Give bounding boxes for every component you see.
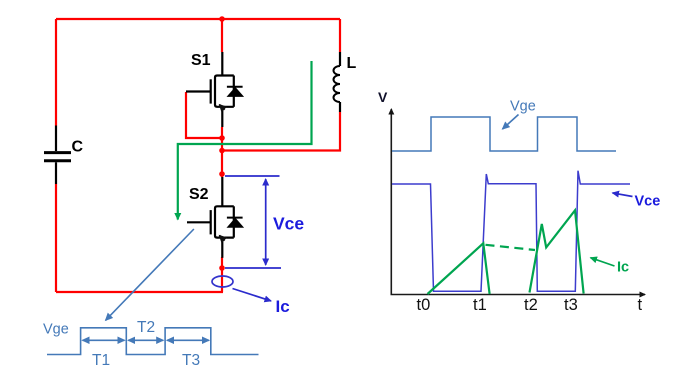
inductor L1 coil bbox=[333, 66, 340, 102]
wire red S1 gate loop bbox=[186, 92, 222, 138]
node Ic pointer arrow bbox=[233, 289, 272, 301]
node Vge label arrow bbox=[503, 115, 519, 130]
wire red S1 emitter to S2 collector bbox=[221, 127, 223, 177]
node Ic label arrow bbox=[591, 258, 615, 266]
node junction dot inductor branch bbox=[219, 148, 225, 154]
node T3 interval arrow bbox=[167, 339, 209, 341]
svg-text:Vce: Vce bbox=[273, 214, 304, 234]
node T2 interval arrow bbox=[128, 339, 163, 341]
wire V axis (vertical) bbox=[390, 109, 392, 295]
wire gate pulse waveform bbox=[47, 328, 259, 355]
svg-text:t2: t2 bbox=[524, 296, 538, 314]
node junction dot top bbox=[219, 16, 225, 22]
svg-text:T2: T2 bbox=[137, 319, 155, 336]
svg-text:t0: t0 bbox=[417, 296, 431, 314]
wire red mid node to inductor bbox=[222, 112, 340, 151]
wire bottom red bus bbox=[56, 291, 223, 293]
svg-text:T3: T3 bbox=[182, 352, 200, 369]
svg-text:Vge: Vge bbox=[510, 99, 536, 115]
svg-text:T1: T1 bbox=[92, 352, 110, 369]
wire Ic waveform ramp t0-t1 bbox=[428, 243, 490, 294]
wire gate drive callout arrow bbox=[106, 229, 194, 320]
wire Ic waveform dashed segment bbox=[486, 245, 536, 250]
node Vce label arrow bbox=[613, 193, 633, 197]
wire top red bus bbox=[56, 18, 340, 20]
wire left red rail bbox=[55, 19, 57, 126]
svg-text:t1: t1 bbox=[473, 296, 487, 314]
transistor S2 bbox=[187, 177, 243, 258]
wire red right rail top bbox=[339, 19, 341, 52]
svg-text:Ic: Ic bbox=[617, 260, 629, 276]
wire Vce waveform trace bbox=[392, 171, 630, 292]
svg-text:S2: S2 bbox=[189, 186, 209, 203]
diode D1 (S1 body diode) bbox=[228, 88, 243, 97]
wire green feedback path bbox=[178, 61, 312, 220]
node Ic ellipse probe bbox=[212, 276, 233, 287]
svg-text:L: L bbox=[347, 55, 357, 72]
node Vce measurement bottom reference line bbox=[225, 267, 281, 269]
wire red below capacitor bbox=[55, 184, 57, 292]
svg-text:S1: S1 bbox=[191, 52, 211, 69]
transistor S1 bbox=[186, 52, 243, 127]
wire red S2 emitter to bottom bus bbox=[221, 257, 223, 292]
wire Vge waveform trace bbox=[392, 117, 616, 151]
svg-text:Vge: Vge bbox=[43, 322, 69, 338]
node T1 interval arrow bbox=[83, 339, 125, 341]
node Vce measurement double arrow bbox=[265, 179, 267, 265]
node Vce measurement top reference line bbox=[225, 175, 280, 177]
svg-text:C: C bbox=[72, 139, 84, 156]
svg-text:Ic: Ic bbox=[276, 297, 290, 316]
capacitor C1 plates bbox=[44, 153, 71, 161]
inductor L1 leads bbox=[339, 52, 341, 112]
wire t axis (horizontal) bbox=[391, 294, 646, 296]
svg-text:Vce: Vce bbox=[635, 194, 661, 210]
node junction dot S2 emitter bbox=[219, 265, 225, 271]
svg-text:t3: t3 bbox=[564, 296, 578, 314]
diode D2 (S2 body diode) bbox=[228, 218, 243, 227]
svg-text:t: t bbox=[638, 296, 643, 314]
node junction dot S2 collector bbox=[219, 171, 225, 177]
node junction dot S1 gate loop bbox=[219, 135, 225, 141]
wire red top bus to S1 collector bbox=[221, 19, 223, 52]
capacitor C1 leads bbox=[55, 126, 57, 185]
svg-text:V: V bbox=[378, 89, 388, 105]
wire Ic waveform t2-t3 bbox=[530, 210, 584, 293]
